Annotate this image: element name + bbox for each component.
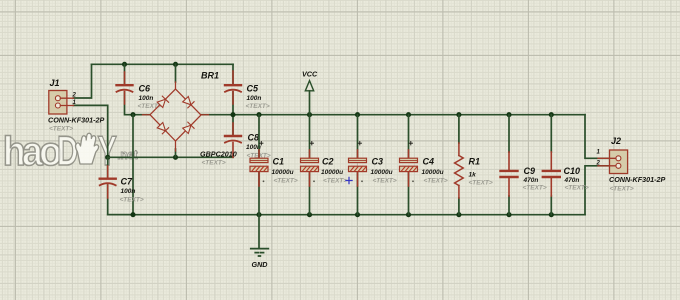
wire J2 pin1 vertical: [585, 115, 610, 159]
svg-text:<TEXT>: <TEXT>: [424, 178, 448, 185]
wire C5 top lead: [232, 64, 234, 84]
svg-text:<TEXT>: <TEXT>: [323, 178, 347, 185]
svg-text:10000u: 10000u: [371, 169, 393, 176]
svg-text:10000u: 10000u: [422, 169, 444, 176]
node dot VCC/C2: [307, 112, 312, 117]
node dot BR1 bottom: [173, 155, 178, 160]
wire C6 bottom to bridge left: [125, 92, 151, 115]
svg-text:<TEXT>: <TEXT>: [373, 178, 397, 185]
svg-text:C9: C9: [524, 166, 536, 176]
wire J2 pin2 vertical: [585, 166, 610, 215]
node dot C9 top: [506, 112, 511, 117]
diode BR1 upper-right: [183, 97, 194, 108]
svg-text:C4: C4: [423, 157, 435, 167]
capacitor C9: [501, 115, 518, 215]
ground symbol: [251, 249, 268, 256]
capacitor C4: [400, 115, 418, 215]
svg-text:100n: 100n: [247, 95, 262, 102]
node dot GND/C1: [256, 212, 261, 217]
capacitor C6: [117, 72, 133, 104]
node dot C4 bottom: [406, 212, 411, 217]
svg-text:C1: C1: [273, 157, 285, 167]
svg-text:C2: C2: [322, 157, 334, 167]
svg-text:hao: hao: [3, 129, 61, 175]
svg-text:<TEXT>: <TEXT>: [610, 186, 634, 193]
wire top rail DC+: [201, 114, 585, 116]
capacitor C5: [225, 71, 241, 104]
diode BR1 lower-right: [183, 122, 194, 133]
svg-text:10000u: 10000u: [321, 169, 343, 176]
svg-text:100n: 100n: [121, 188, 136, 195]
resistor R1: [455, 115, 464, 215]
svg-text:<TEXT>: <TEXT>: [246, 103, 270, 110]
svg-text:J1: J1: [50, 78, 60, 88]
capacitor C8: [225, 123, 241, 157]
node dot C10 bottom: [549, 212, 554, 217]
node dot C9 bottom: [506, 212, 511, 217]
svg-text:GND: GND: [252, 260, 268, 269]
svg-text:100n: 100n: [139, 95, 154, 102]
svg-text:.net: .net: [117, 148, 137, 163]
connector J1: [49, 91, 74, 115]
svg-text:C8: C8: [248, 133, 260, 143]
svg-text:1: 1: [597, 150, 601, 156]
capacitor C3: [349, 115, 367, 215]
wire J1 pin1 down left side: [74, 105, 108, 157]
svg-text:<TEXT>: <TEXT>: [120, 197, 144, 204]
svg-text:CONN-KF301-2P: CONN-KF301-2P: [48, 116, 105, 125]
svg-text:C7: C7: [121, 177, 133, 187]
bridge rectifier BR1: [143, 82, 209, 151]
svg-text:2: 2: [596, 161, 601, 167]
svg-text:470n: 470n: [523, 177, 539, 184]
node dot C10 top: [549, 112, 554, 117]
svg-text:VCC: VCC: [302, 70, 318, 79]
svg-text:<TEXT>: <TEXT>: [565, 185, 589, 192]
svg-text:GBPC2010: GBPC2010: [200, 150, 237, 159]
wire C6 top lead: [124, 64, 126, 84]
node dot DC-: [130, 112, 135, 117]
svg-text:C6: C6: [139, 84, 151, 94]
wire top AC1 horizontal: [92, 63, 234, 65]
node dot R1 top: [456, 112, 461, 117]
svg-text:470n: 470n: [564, 177, 580, 184]
node dot AC2 left: [105, 155, 110, 160]
svg-text:C5: C5: [247, 84, 259, 94]
node dot BR1 top: [173, 62, 178, 67]
wire AC2 horizontal to C8: [108, 156, 233, 158]
capacitor C1: [250, 115, 268, 215]
wire C7 bottom lead: [108, 185, 133, 215]
wire bottom rail: [108, 214, 585, 216]
svg-text:<TEXT>: <TEXT>: [469, 180, 493, 187]
node dot C1 top: [256, 112, 261, 117]
node dot R1 bottom: [456, 212, 461, 217]
svg-text:D: D: [57, 126, 78, 174]
diode BR1 lower-left: [157, 123, 168, 134]
wire DC- down to bottom rail: [132, 115, 134, 215]
svg-text:<TEXT>: <TEXT>: [523, 185, 547, 192]
wire J1 pin2 to top corner: [74, 64, 92, 98]
node dot C4 top: [406, 112, 411, 117]
wire BR1 bottom stub to AC2: [175, 149, 177, 157]
wire VCC stem: [309, 91, 311, 115]
svg-text:C10: C10: [564, 166, 581, 176]
svg-text:CONN-KF301-2P: CONN-KF301-2P: [609, 175, 666, 184]
node dot C2 bottom: [307, 212, 312, 217]
wire C5 bottom lead: [232, 92, 234, 115]
node dot C6 top: [122, 62, 127, 67]
capacitor C7: [100, 166, 116, 198]
node dot DC- bottom: [130, 212, 135, 217]
wire BR1 top lead: [175, 64, 177, 82]
svg-text:BR1: BR1: [201, 71, 219, 81]
svg-text:<TEXT>: <TEXT>: [202, 160, 226, 167]
node dot C3 bottom: [355, 212, 360, 217]
svg-text:C3: C3: [372, 157, 384, 167]
svg-text:<TEXT>: <TEXT>: [274, 178, 298, 185]
wire C7 branch down: [107, 157, 109, 177]
capacitor C10: [543, 115, 560, 215]
wire GND stem: [258, 215, 260, 248]
wire C8 top lead: [232, 115, 234, 135]
watermark haoDIY.net: [3, 126, 138, 174]
origin marker blue cross: [346, 177, 352, 183]
power VCC symbol: [305, 81, 313, 91]
svg-text:J2: J2: [611, 136, 621, 146]
diode BR1 upper-left: [157, 96, 168, 107]
node dot C3 top: [355, 112, 360, 117]
svg-text:<TEXT>: <TEXT>: [49, 126, 73, 133]
connector J2: [598, 150, 628, 174]
node dot C5/C8: [230, 112, 235, 117]
capacitor C2: [301, 115, 319, 215]
watermark hand: [75, 133, 98, 164]
svg-text:1k: 1k: [469, 172, 477, 179]
svg-text:R1: R1: [469, 157, 481, 167]
svg-text:10000u: 10000u: [272, 169, 294, 176]
svg-text:2: 2: [72, 93, 77, 99]
